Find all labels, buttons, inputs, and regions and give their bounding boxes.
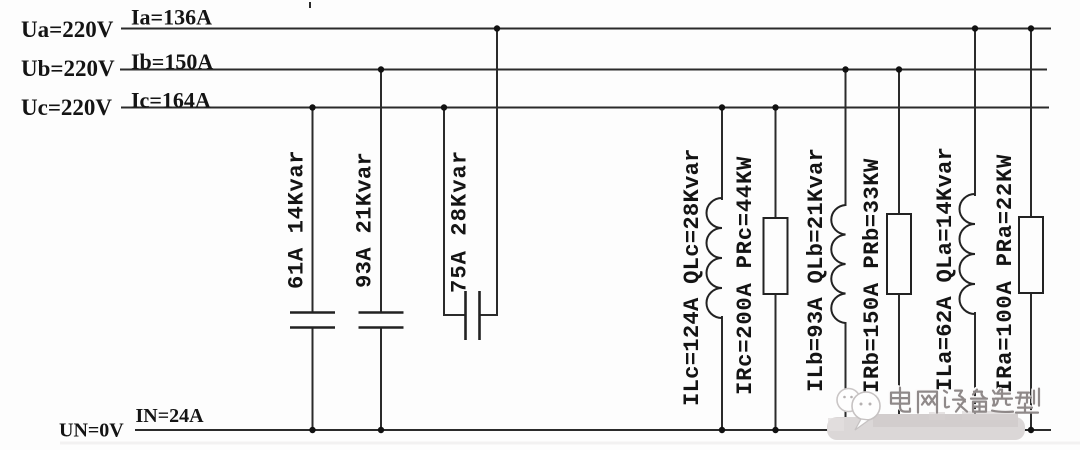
svg-text:ILc=124A QLc=28Kvar: ILc=124A QLc=28Kvar [680, 148, 705, 406]
junction dot Rb top [896, 66, 902, 72]
junction dot Lb top [842, 66, 848, 72]
capacitor C2 plates [359, 313, 404, 328]
wire branch La lower [974, 312, 976, 430]
svg-text:93A 21Kvar: 93A 21Kvar [353, 152, 378, 288]
resistor Ra body [1019, 217, 1043, 293]
junction dot C2 top [378, 66, 384, 72]
faint scan streak [60, 442, 1080, 445]
watermark text 电网设备选型 [890, 386, 1039, 412]
svg-text:61A 14Kvar: 61A 14Kvar [285, 150, 310, 289]
junction dot C2 bottom [378, 427, 384, 433]
bus C wire (Uc phase line) [121, 107, 1049, 109]
junction dot C3 right top [494, 25, 500, 31]
junction dot La bottom [972, 427, 978, 433]
watermark chat bubble icon [837, 389, 880, 431]
junction dot Rb bottom [896, 427, 902, 433]
svg-text:ILb=93A QLb=21Kvar: ILb=93A QLb=21Kvar [804, 148, 829, 392]
wire branch Lc lower [721, 316, 723, 430]
capacitor C3 plates (horizontal orientation) [466, 291, 480, 340]
junction dot Ra top [1028, 25, 1034, 31]
wire branch Lc upper [721, 108, 723, 201]
junction dot Rc top [772, 104, 778, 110]
neutral bus wire (UN line) [135, 429, 1051, 431]
wire branch Lb lower [845, 322, 847, 430]
junction dot C3 left top [441, 104, 447, 110]
svg-text:IRa=100A PRa=22KW: IRa=100A PRa=22KW [993, 154, 1018, 393]
junction dot La top [972, 25, 978, 31]
svg-text:UN=0V: UN=0V [59, 419, 124, 441]
junction dot Lc top [719, 104, 725, 110]
bus B wire (Ub phase line) [120, 69, 1047, 71]
junction dot C1 bottom [309, 427, 315, 433]
wire branch La upper [974, 29, 976, 197]
svg-text:Ic=164A: Ic=164A [131, 88, 211, 113]
svg-text:Ib=150A: Ib=150A [131, 49, 213, 74]
wire branch C2 lower [380, 328, 382, 430]
svg-text:75A 28Kvar: 75A 28Kvar [448, 150, 473, 293]
svg-text:Ub=220V: Ub=220V [21, 56, 115, 81]
wire branch C3 left [444, 108, 465, 316]
wire branch Rc [775, 108, 777, 431]
svg-text:Ia=136A: Ia=136A [131, 4, 212, 29]
wire branch C2 upper [380, 70, 382, 313]
svg-text:Uc=220V: Uc=220V [21, 95, 112, 120]
resistor Rb body [887, 214, 911, 294]
svg-text:IRb=150A PRb=33KW: IRb=150A PRb=33KW [860, 158, 885, 393]
wire branch Ra [1030, 29, 1032, 431]
wire branch C1 upper [312, 108, 314, 313]
junction dot C1 top [309, 104, 315, 110]
stray tick mark [309, 2, 311, 8]
junction dot Lb bottom [842, 427, 848, 433]
inductor Lc coil [706, 198, 722, 318]
junction dot Rc bottom [772, 427, 778, 433]
wire branch C3 right [480, 29, 497, 316]
capacitor C1 plates [290, 313, 335, 328]
svg-text:Ua=220V: Ua=220V [21, 17, 114, 42]
watermark band [827, 411, 1025, 440]
svg-text:IRc=200A PRc=44KW: IRc=200A PRc=44KW [733, 156, 758, 395]
wire branch Rb [898, 70, 900, 431]
svg-text:ILa=62A QLa=14Kvar: ILa=62A QLa=14Kvar [933, 147, 958, 391]
inductor Lb coil [831, 205, 845, 323]
bus A wire (Ua phase line) [121, 28, 1051, 30]
svg-text:IN=24A: IN=24A [136, 405, 205, 427]
wire branch Lb upper [845, 70, 847, 207]
resistor Rc body [764, 218, 788, 294]
junction dot Ra bottom [1028, 427, 1034, 433]
wire branch C1 lower [312, 328, 314, 430]
inductor La coil [960, 194, 976, 314]
junction dot Lc bottom [719, 427, 725, 433]
